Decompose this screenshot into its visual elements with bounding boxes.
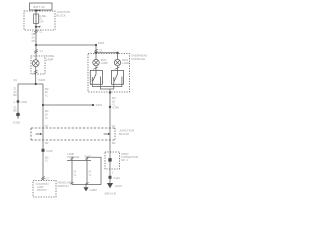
console lamp right — [114, 59, 120, 65]
junction block band left cap — [30, 128, 32, 140]
svg-text:NO. 1: NO. 1 — [121, 158, 129, 162]
node bus tap bottom — [35, 26, 37, 28]
svg-text:Z1: Z1 — [14, 78, 18, 82]
dome lamp bulb — [32, 60, 39, 67]
wire lamp unit pin right — [86, 157, 88, 161]
svg-text:LAMP: LAMP — [46, 57, 54, 61]
svg-text:BK: BK — [13, 109, 17, 113]
svg-text:S201: S201 — [98, 41, 105, 45]
svg-text:SWITCH: SWITCH — [58, 184, 69, 188]
svg-text:LAMP: LAMP — [122, 61, 129, 65]
node console output — [109, 91, 111, 93]
svg-text:PACKAGE: PACKAGE — [67, 156, 79, 159]
svg-text:JUNCTION: JUNCTION — [57, 10, 71, 14]
headlamp switch dashed box — [33, 181, 56, 198]
svg-text:(8W-15-6): (8W-15-6) — [105, 192, 117, 196]
wire feed to overhead console — [36, 44, 96, 46]
junction block internal arrow right — [104, 133, 108, 135]
connector hash lamp right — [116, 67, 120, 69]
svg-text:BATT A0: BATT A0 — [33, 5, 45, 9]
switch box left — [90, 70, 102, 84]
wire lamp unit pin left — [71, 157, 73, 161]
connector hash headlamp switch entry — [41, 177, 45, 181]
node console bus right — [95, 52, 97, 54]
lamp unit top bar — [67, 160, 91, 162]
svg-text:C2: C2 — [112, 125, 116, 128]
overhead console dashed box — [88, 54, 130, 93]
wire console left drop — [95, 45, 97, 60]
switch box right — [111, 70, 123, 84]
dome lamp dashed box — [31, 56, 45, 74]
svg-text:S300: S300 — [39, 78, 46, 82]
wire lamp unit right leg — [86, 161, 88, 185]
svg-text:BLOCK: BLOCK — [57, 14, 66, 18]
svg-text:G301: G301 — [115, 184, 123, 188]
svg-text:YL: YL — [73, 174, 77, 177]
node connector right column — [109, 106, 111, 108]
wire ground merge — [72, 184, 101, 186]
svg-text:C2: C2 — [46, 177, 50, 180]
svg-text:YL: YL — [45, 159, 49, 163]
joint connector square — [108, 158, 111, 161]
node splice S301 left — [42, 104, 44, 106]
junction block internal arrow left — [36, 133, 40, 135]
wire fuse to splice — [35, 23, 37, 45]
svg-text:BK: BK — [13, 93, 17, 97]
connector hash lamp left — [94, 67, 98, 69]
wire into dome lamp — [35, 45, 37, 60]
wire base jumper — [87, 157, 101, 184]
ground G300 center triangle — [83, 187, 88, 191]
svg-text:CONSOLE: CONSOLE — [131, 57, 145, 61]
svg-text:LAMP: LAMP — [101, 61, 108, 65]
svg-text:BASE: BASE — [85, 155, 92, 158]
wire courtesy switch branch — [42, 84, 44, 180]
wire switch outputs crossover — [92, 84, 122, 89]
connector C300 on ground branch — [17, 100, 20, 103]
ground eyelet G300 left — [16, 113, 20, 117]
wire tee at y84 — [18, 83, 43, 85]
node splice S301 end — [92, 104, 94, 106]
svg-text:C1: C1 — [40, 50, 44, 53]
svg-text:C2: C2 — [45, 125, 49, 128]
wire ground branch — [17, 84, 19, 113]
svg-text:YL: YL — [45, 93, 49, 97]
connector hash console left — [94, 49, 98, 53]
connector hash at junction block exit — [34, 30, 38, 34]
svg-text:SWITCH: SWITCH — [37, 189, 47, 192]
svg-text:4: 4 — [14, 101, 16, 104]
wire right column — [109, 92, 111, 183]
node bus tap top — [35, 9, 37, 11]
wire lamp left to switch — [95, 66, 97, 71]
wire dome lamp to tee — [35, 67, 37, 84]
svg-text:C315: C315 — [46, 149, 53, 153]
fuse F5 — [34, 14, 39, 24]
svg-text:C1: C1 — [99, 50, 103, 53]
node feed to console — [95, 44, 97, 46]
wire console right drop — [117, 53, 119, 60]
joint connector dashed box — [105, 152, 120, 169]
connector hash dome lamp return — [34, 70, 38, 74]
node splice S300 — [35, 83, 37, 85]
svg-text:G300: G300 — [13, 120, 21, 124]
wire ground drop — [85, 185, 87, 188]
svg-text:YL: YL — [88, 174, 92, 177]
svg-text:S301: S301 — [96, 103, 103, 107]
junction block band top dashed — [31, 127, 115, 129]
svg-text:C300: C300 — [21, 100, 28, 104]
console lamp left — [93, 59, 99, 65]
wire console output drop — [109, 89, 111, 93]
svg-text:G300: G300 — [90, 188, 98, 192]
svg-text:PK: PK — [32, 39, 36, 43]
connector square C316 — [109, 176, 112, 179]
connector hash legs bottom — [70, 182, 88, 184]
wire lamp right to switch — [117, 66, 119, 71]
svg-text:C1: C1 — [39, 30, 43, 33]
svg-text:YL: YL — [45, 116, 49, 120]
svg-text:M2: M2 — [112, 141, 116, 145]
junction block band bottom dashed — [31, 139, 115, 141]
wire lamp unit left leg — [71, 161, 73, 185]
switch lever right — [114, 70, 122, 84]
console bus wire — [96, 52, 118, 54]
junction block dashed box — [24, 11, 55, 30]
connector hash pin right — [85, 158, 88, 160]
ground G301 right triangle — [107, 183, 113, 188]
connector square C315 — [42, 149, 45, 152]
svg-text:10A: 10A — [39, 20, 44, 24]
connector hash dome lamp feed — [34, 50, 38, 54]
svg-text:M2: M2 — [45, 141, 49, 145]
svg-text:C340: C340 — [112, 105, 119, 109]
wire splice S301 stub — [43, 104, 93, 106]
svg-text:C316: C316 — [113, 176, 120, 180]
node splice S200 — [35, 44, 37, 46]
wire BATT to fuse — [35, 10, 37, 16]
battery feed box BATT A0 — [30, 3, 53, 10]
switch lever left — [92, 70, 100, 84]
svg-text:2: 2 — [112, 171, 114, 174]
connector hash pin left — [70, 158, 73, 160]
svg-text:BLOCK: BLOCK — [119, 132, 129, 136]
